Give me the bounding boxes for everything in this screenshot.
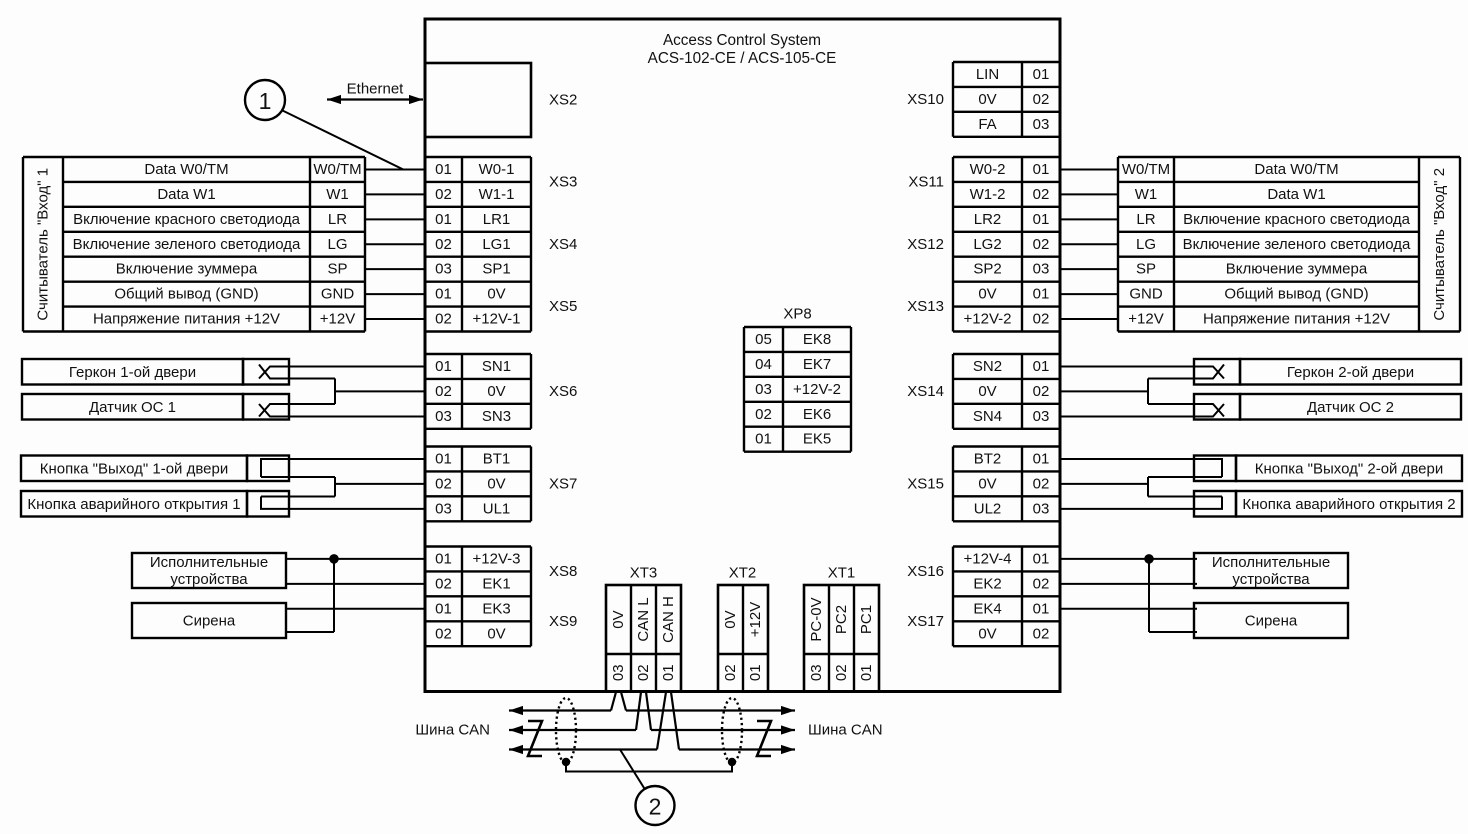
svg-text:Включение красного светодиода: Включение красного светодиода: [73, 211, 301, 228]
svg-text:01: 01: [1033, 161, 1050, 178]
svg-text:XS9: XS9: [549, 613, 577, 630]
svg-text:EK7: EK7: [803, 356, 831, 373]
svg-text:UL2: UL2: [974, 500, 1002, 517]
svg-text:02: 02: [1033, 575, 1050, 592]
svg-text:02: 02: [1033, 91, 1050, 108]
svg-text:XS5: XS5: [549, 298, 577, 315]
svg-text:Считыватель "Вход" 2: Считыватель "Вход" 2: [1431, 168, 1448, 321]
svg-text:02: 02: [1033, 186, 1050, 203]
svg-text:LG: LG: [1136, 236, 1156, 253]
svg-text:Включение зуммера: Включение зуммера: [116, 261, 258, 278]
svg-text:Исполнительные: Исполнительные: [150, 554, 268, 571]
svg-text:EK5: EK5: [803, 431, 831, 448]
svg-text:XT1: XT1: [828, 565, 856, 582]
svg-text:Включение зеленого светодиода: Включение зеленого светодиода: [73, 236, 301, 253]
svg-text:SN3: SN3: [482, 408, 511, 425]
svg-text:+12V: +12V: [320, 311, 355, 328]
svg-text:01: 01: [435, 161, 452, 178]
svg-text:Напряжение питания +12V: Напряжение питания +12V: [1203, 311, 1390, 328]
svg-text:02: 02: [435, 383, 452, 400]
svg-text:1: 1: [259, 88, 272, 114]
svg-text:01: 01: [1033, 286, 1050, 303]
svg-text:0V: 0V: [978, 91, 996, 108]
svg-text:Напряжение питания +12V: Напряжение питания +12V: [93, 311, 280, 328]
svg-text:BT2: BT2: [974, 450, 1002, 467]
svg-text:0V: 0V: [610, 610, 627, 628]
svg-text:01: 01: [1033, 600, 1050, 617]
svg-text:Кнопка "Выход" 1-ой двери: Кнопка "Выход" 1-ой двери: [40, 460, 228, 477]
svg-text:PC2: PC2: [833, 605, 850, 634]
svg-text:Кнопка "Выход" 2-ой двери: Кнопка "Выход" 2-ой двери: [1255, 460, 1443, 477]
svg-text:W1-1: W1-1: [479, 186, 515, 203]
svg-text:SN2: SN2: [973, 358, 1002, 375]
svg-text:+12V-3: +12V-3: [473, 550, 521, 567]
svg-text:EK8: EK8: [803, 331, 831, 348]
svg-text:2: 2: [649, 794, 662, 820]
svg-text:02: 02: [1033, 625, 1050, 642]
svg-text:Исполнительные: Исполнительные: [1212, 554, 1330, 571]
svg-text:LR: LR: [1136, 211, 1155, 228]
svg-text:W1: W1: [1135, 186, 1158, 203]
svg-text:03: 03: [755, 381, 772, 398]
svg-text:01: 01: [1033, 550, 1050, 567]
svg-text:FA: FA: [978, 116, 996, 133]
svg-text:05: 05: [755, 331, 772, 348]
svg-text:0V: 0V: [487, 625, 505, 642]
svg-text:Геркон 1-ой двери: Геркон 1-ой двери: [69, 364, 196, 381]
svg-text:01: 01: [1033, 211, 1050, 228]
svg-text:03: 03: [1033, 116, 1050, 133]
svg-text:02: 02: [755, 406, 772, 423]
svg-text:0V: 0V: [722, 610, 739, 628]
svg-text:XS8: XS8: [549, 563, 577, 580]
svg-text:EK6: EK6: [803, 406, 831, 423]
svg-text:SN1: SN1: [482, 358, 511, 375]
svg-text:EK3: EK3: [482, 600, 510, 617]
svg-text:01: 01: [660, 664, 677, 681]
svg-text:03: 03: [435, 408, 452, 425]
svg-text:+12V: +12V: [747, 602, 764, 637]
svg-text:+12V-1: +12V-1: [473, 311, 521, 328]
svg-text:ACS-102-CE / ACS-105-CE: ACS-102-CE / ACS-105-CE: [648, 50, 837, 67]
svg-text:XS11: XS11: [908, 174, 944, 191]
svg-text:Включение зуммера: Включение зуммера: [1226, 261, 1368, 278]
svg-text:01: 01: [435, 358, 452, 375]
svg-text:XS16: XS16: [907, 563, 944, 580]
svg-text:0V: 0V: [978, 475, 996, 492]
svg-text:03: 03: [1033, 500, 1050, 517]
svg-text:0V: 0V: [487, 286, 505, 303]
svg-text:SN4: SN4: [973, 408, 1002, 425]
svg-text:01: 01: [435, 286, 452, 303]
svg-text:XT3: XT3: [630, 565, 658, 582]
svg-text:GND: GND: [1129, 286, 1163, 303]
svg-text:0V: 0V: [487, 475, 505, 492]
svg-text:XS7: XS7: [549, 475, 577, 492]
svg-text:XS15: XS15: [907, 475, 944, 492]
svg-text:Общий вывод (GND): Общий вывод (GND): [1224, 286, 1368, 303]
svg-text:04: 04: [755, 356, 772, 373]
svg-text:Кнопка аварийного открытия 1: Кнопка аварийного открытия 1: [27, 496, 240, 513]
svg-text:XS13: XS13: [907, 298, 944, 315]
svg-text:XT2: XT2: [729, 565, 757, 582]
svg-text:Access Control System: Access Control System: [663, 32, 821, 49]
svg-text:Data W1: Data W1: [1267, 186, 1325, 203]
svg-text:XP8: XP8: [783, 306, 811, 323]
svg-text:W0-1: W0-1: [479, 161, 515, 178]
svg-text:устройства: устройства: [170, 571, 248, 588]
svg-text:BT1: BT1: [483, 450, 511, 467]
svg-text:W0/TM: W0/TM: [313, 161, 361, 178]
svg-text:02: 02: [435, 475, 452, 492]
svg-text:LG2: LG2: [973, 236, 1001, 253]
svg-text:03: 03: [435, 500, 452, 517]
svg-text:PC-0V: PC-0V: [808, 597, 825, 641]
svg-text:03: 03: [808, 664, 825, 681]
svg-text:EK2: EK2: [973, 575, 1001, 592]
svg-text:01: 01: [1033, 450, 1050, 467]
svg-text:EK1: EK1: [482, 575, 510, 592]
svg-text:01: 01: [435, 600, 452, 617]
svg-text:XS10: XS10: [907, 91, 944, 108]
svg-text:W0/TM: W0/TM: [1122, 161, 1170, 178]
svg-text:02: 02: [1033, 236, 1050, 253]
svg-text:0V: 0V: [978, 286, 996, 303]
svg-text:02: 02: [435, 236, 452, 253]
svg-text:02: 02: [435, 311, 452, 328]
svg-text:Data W0/TM: Data W0/TM: [1254, 161, 1338, 178]
svg-text:Включение красного светодиода: Включение красного светодиода: [1183, 211, 1411, 228]
svg-text:Data W0/TM: Data W0/TM: [144, 161, 228, 178]
svg-text:LR: LR: [328, 211, 347, 228]
svg-text:устройства: устройства: [1232, 571, 1310, 588]
svg-text:W1: W1: [326, 186, 349, 203]
svg-text:Общий вывод (GND): Общий вывод (GND): [114, 286, 258, 303]
svg-text:XS3: XS3: [549, 174, 577, 191]
svg-text:01: 01: [435, 450, 452, 467]
svg-text:02: 02: [435, 575, 452, 592]
svg-text:+12V-2: +12V-2: [964, 311, 1012, 328]
svg-text:02: 02: [833, 664, 850, 681]
svg-text:W1-2: W1-2: [970, 186, 1006, 203]
svg-text:03: 03: [1033, 408, 1050, 425]
svg-text:SP2: SP2: [973, 261, 1001, 278]
svg-text:LR1: LR1: [483, 211, 511, 228]
svg-text:XS2: XS2: [549, 92, 577, 109]
svg-text:Сирена: Сирена: [1245, 613, 1298, 630]
svg-text:0V: 0V: [978, 625, 996, 642]
svg-text:03: 03: [1033, 261, 1050, 278]
svg-text:EK4: EK4: [973, 600, 1001, 617]
svg-text:02: 02: [722, 664, 739, 681]
svg-text:LIN: LIN: [976, 66, 999, 83]
svg-text:01: 01: [747, 664, 764, 681]
svg-text:Считыватель "Вход" 1: Считыватель "Вход" 1: [35, 168, 52, 321]
svg-text:01: 01: [858, 664, 875, 681]
svg-text:0V: 0V: [978, 383, 996, 400]
svg-text:XS17: XS17: [907, 613, 944, 630]
svg-text:SP: SP: [327, 261, 347, 278]
svg-text:03: 03: [435, 261, 452, 278]
svg-text:02: 02: [1033, 383, 1050, 400]
svg-text:UL1: UL1: [483, 500, 511, 517]
svg-text:Кнопка аварийного открытия 2: Кнопка аварийного открытия 2: [1242, 496, 1455, 513]
svg-text:01: 01: [1033, 66, 1050, 83]
svg-text:XS12: XS12: [907, 236, 944, 253]
svg-text:+12V-2: +12V-2: [793, 381, 841, 398]
svg-text:01: 01: [755, 431, 772, 448]
svg-text:CAN H: CAN H: [660, 596, 677, 643]
svg-text:03: 03: [610, 664, 627, 681]
svg-text:02: 02: [435, 186, 452, 203]
svg-text:Датчик ОС 2: Датчик ОС 2: [1307, 399, 1394, 416]
svg-text:+12V-4: +12V-4: [964, 550, 1012, 567]
svg-text:LR2: LR2: [974, 211, 1002, 228]
svg-text:02: 02: [635, 664, 652, 681]
svg-text:02: 02: [1033, 311, 1050, 328]
svg-text:XS6: XS6: [549, 383, 577, 400]
svg-text:Включение зеленого светодиода: Включение зеленого светодиода: [1183, 236, 1411, 253]
svg-text:SP1: SP1: [482, 261, 510, 278]
svg-text:XS14: XS14: [907, 383, 944, 400]
svg-text:LG1: LG1: [482, 236, 510, 253]
svg-text:01: 01: [435, 211, 452, 228]
svg-text:+12V: +12V: [1128, 311, 1163, 328]
svg-text:LG: LG: [327, 236, 347, 253]
svg-text:Датчик ОС 1: Датчик ОС 1: [89, 399, 176, 416]
svg-text:GND: GND: [321, 286, 355, 303]
svg-text:02: 02: [1033, 475, 1050, 492]
svg-text:Геркон 2-ой двери: Геркон 2-ой двери: [1287, 364, 1414, 381]
svg-text:Сирена: Сирена: [183, 613, 236, 630]
svg-text:W0-2: W0-2: [970, 161, 1006, 178]
svg-text:02: 02: [435, 625, 452, 642]
svg-text:Шина CAN: Шина CAN: [808, 722, 883, 739]
svg-text:01: 01: [1033, 358, 1050, 375]
svg-text:PC1: PC1: [858, 605, 875, 634]
svg-text:Ethernet: Ethernet: [347, 81, 405, 98]
svg-text:Шина CAN: Шина CAN: [415, 722, 490, 739]
svg-text:SP: SP: [1136, 261, 1156, 278]
svg-text:Data W1: Data W1: [157, 186, 215, 203]
svg-text:01: 01: [435, 550, 452, 567]
svg-text:XS4: XS4: [549, 236, 577, 253]
svg-text:0V: 0V: [487, 383, 505, 400]
svg-text:CAN L: CAN L: [635, 597, 652, 641]
